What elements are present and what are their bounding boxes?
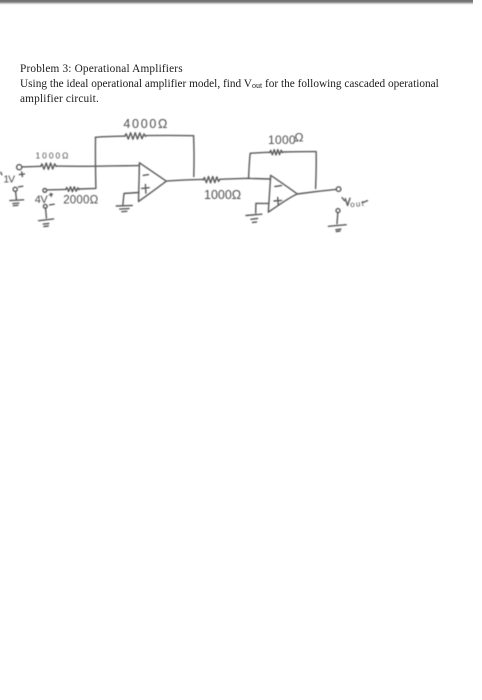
junction vertical wire J1 (node A): [94, 137, 96, 188]
terminal T1 (1V source + terminal): [17, 165, 22, 170]
U2 output wire: [297, 189, 336, 194]
label Vout: V: [345, 198, 350, 205]
ground G1: [10, 200, 24, 206]
plus sign of source 1: [19, 172, 24, 177]
wire R2 to junction J1: [79, 187, 96, 190]
label Vout: t flick: [362, 201, 367, 203]
superscript plus of 4V: [49, 193, 52, 196]
resistor R4 1000ohm (series): [203, 177, 220, 183]
wire to ground G2: [45, 209, 48, 219]
tick before Vout: [342, 198, 345, 201]
ground G2: [39, 219, 54, 227]
wire R1 to U1 minus input (main node wire): [56, 165, 139, 168]
feedback top wire left segment: [96, 136, 125, 137]
feedback 2 top wire right segment: [282, 151, 316, 153]
wire to ground G1: [15, 192, 18, 200]
ground G4 (U2 +): [246, 214, 262, 222]
feedback 2 top wire left segment: [250, 152, 270, 153]
svg-text:out: out: [350, 199, 366, 209]
svg-text:1000Ω: 1000Ω: [36, 151, 71, 161]
problem statement text: [20, 62, 465, 106]
svg-text:1V: 1V: [3, 174, 15, 185]
U1 minus sign: [143, 174, 148, 177]
feedback 2 left leg up: [249, 153, 251, 178]
svg-text:2000Ω: 2000Ω: [63, 194, 98, 206]
svg-text:4000Ω: 4000Ω: [123, 117, 169, 131]
resistor R2 2000ohm: [66, 187, 79, 192]
svg-text:1000Ω: 1000Ω: [204, 188, 241, 202]
wire R4 to U2 minus input: [220, 178, 271, 179]
resistor R3 4000ohm (feedback U1): [125, 133, 146, 140]
resistor R5 1000ohm (feedback U2): [270, 150, 283, 155]
tick before 1V: [0, 172, 3, 174]
terminal T4 (below Vout): [336, 209, 340, 213]
U2 minus sign: [275, 185, 282, 188]
feedback right leg down to U1 output: [193, 136, 195, 177]
U1 plus input wire: [123, 193, 139, 205]
op-amp U2: [268, 175, 297, 212]
terminal T2b (source2 - to ground): [43, 204, 47, 208]
terminal T1b (source1 - to ground): [13, 187, 17, 191]
minus sign: [50, 203, 55, 206]
U2 plus sign: [274, 197, 282, 205]
ground G3 (U1 +): [116, 206, 132, 212]
wire T4 to ground G5: [336, 213, 339, 224]
minus sign: [19, 185, 23, 188]
svg-text:1000: 1000: [268, 133, 296, 147]
U1 plus sign: [142, 185, 150, 194]
top scan bar: [0, 0, 473, 5]
resistor R1 1000ohm: [41, 163, 56, 169]
terminal T2 (4V source + terminal): [43, 189, 47, 193]
feedback top wire right segment: [146, 134, 193, 136]
terminal T3 (Vout): [336, 187, 341, 192]
op-amp U1: [139, 163, 167, 202]
U1 output wire: [166, 179, 203, 181]
U2 plus input wire: [256, 203, 269, 213]
wire T2 to R2: [47, 188, 66, 191]
feedback 2 right leg down: [315, 152, 318, 189]
ground G5: [328, 225, 346, 232]
svg-text:Ω: Ω: [295, 130, 304, 144]
wire T1 to R1: [22, 165, 41, 168]
